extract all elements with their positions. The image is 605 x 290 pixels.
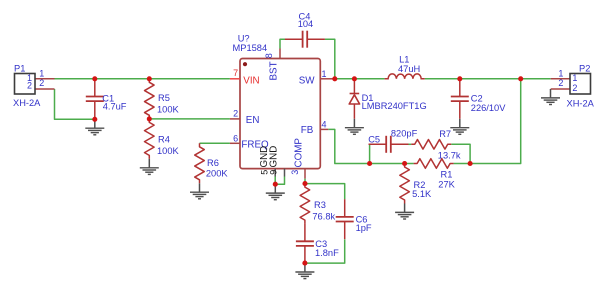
resistor R2 5.1K: [400, 164, 432, 204]
ground under R2: [395, 204, 414, 220]
resistor R6 200K: [195, 143, 229, 183]
svg-text:47uH: 47uH: [398, 64, 420, 74]
svg-text:C5: C5: [368, 134, 380, 144]
svg-text:820pF: 820pF: [391, 128, 418, 138]
svg-text:27K: 27K: [438, 180, 455, 190]
svg-text:2: 2: [558, 78, 563, 88]
connector P1 XH-2A: [13, 64, 55, 109]
svg-text:104: 104: [298, 19, 314, 29]
svg-text:R6: R6: [207, 158, 219, 168]
wire VIN rail P1 to U1 pin7: [55, 78, 230, 80]
connector P2 XH-2A: [551, 64, 595, 109]
junction VOUT rail / feedback tap: [518, 76, 523, 81]
resistor R7 13.7k: [411, 129, 461, 160]
wire BST to C4 left: [280, 39, 285, 48]
wire EN net R5/R4 to U1 pin2: [149, 118, 230, 120]
svg-text:4.7uF: 4.7uF: [103, 101, 127, 111]
svg-text:1: 1: [572, 73, 577, 83]
svg-text:1: 1: [322, 69, 327, 79]
wire C4 right to SW rail: [325, 39, 335, 79]
wire P1 pin2 to C1 bottom: [55, 89, 95, 119]
resistor R5 100K: [145, 79, 180, 119]
svg-text:2: 2: [233, 109, 238, 119]
capacitor C5 820pF: [368, 128, 417, 152]
junction R5 / R4 / EN: [147, 116, 152, 121]
junction C3 / C6 / ground: [302, 261, 307, 266]
svg-text:XH-2A: XH-2A: [567, 99, 595, 109]
junction FB node / R2: [402, 161, 407, 166]
ground under U1 GND pins: [266, 184, 285, 200]
svg-text:U?: U?: [238, 34, 250, 44]
ground under R4: [140, 159, 159, 175]
svg-text:P1: P1: [14, 64, 25, 74]
svg-text:200K: 200K: [206, 168, 229, 178]
junction SW rail / D1: [352, 76, 357, 81]
svg-text:MP1584: MP1584: [233, 43, 268, 53]
svg-text:R3: R3: [314, 200, 326, 210]
junction COMP / R3: [302, 181, 307, 186]
junction VIN rail / R5: [147, 76, 152, 81]
wire VOUT rail L1 to P2 pin1: [425, 78, 551, 80]
wire GND pins to ground node: [275, 177, 284, 185]
junction R1 / R7 / VOUT: [468, 161, 473, 166]
svg-text:100K: 100K: [157, 105, 180, 115]
capacitor C4 104: [285, 11, 325, 47]
svg-text:2: 2: [572, 83, 577, 93]
ground under C3: [295, 263, 314, 279]
svg-text:R7: R7: [439, 129, 451, 139]
ground at P2 pin2: [541, 89, 560, 105]
ground under R6: [190, 183, 209, 199]
wire FREQ net R6 to U1 pin6: [200, 142, 230, 144]
wire C5 branch up from FB node: [370, 144, 371, 163]
wire R7 right down to R1 right node: [451, 144, 470, 163]
svg-text:R4: R4: [158, 134, 170, 144]
resistor R4 100K: [145, 119, 180, 159]
svg-text:EN: EN: [246, 115, 260, 126]
svg-text:FB: FB: [301, 125, 314, 136]
wire R1 right to VOUT tap: [454, 79, 521, 164]
ground under D1: [345, 119, 364, 135]
op-amp U1 MP1584 regulator: [230, 34, 335, 179]
wire C6 bottom to C3 bottom: [305, 239, 345, 263]
junction FB node / C5 branch: [367, 161, 372, 166]
junction VOUT rail / C2: [457, 76, 462, 81]
resistor R3 76.8k: [300, 184, 335, 224]
svg-text:9: 9: [269, 170, 279, 175]
svg-text:1pF: 1pF: [356, 223, 372, 233]
capacitor C6 1pF: [336, 199, 372, 239]
wire SW rail U1 pin1 to L1: [335, 78, 385, 80]
junction SW rail / C4 branch: [332, 76, 337, 81]
svg-text:5.1K: 5.1K: [412, 189, 432, 199]
svg-text:2: 2: [27, 81, 32, 91]
svg-text:4: 4: [322, 119, 327, 129]
ground under C2: [450, 119, 469, 135]
wire COMP node to C6 top: [305, 179, 345, 200]
svg-text:7: 7: [233, 68, 238, 78]
svg-text:100K: 100K: [157, 146, 180, 156]
svg-text:226/10V: 226/10V: [471, 103, 506, 113]
svg-text:L1: L1: [399, 54, 409, 64]
svg-text:1.8nF: 1.8nF: [315, 248, 339, 258]
svg-text:76.8k: 76.8k: [312, 212, 335, 222]
svg-text:BST: BST: [269, 61, 280, 80]
ground under C1: [85, 119, 104, 135]
capacitor C2 226/10V: [451, 79, 506, 119]
junction C1 bottom / ground: [92, 117, 97, 122]
svg-text:6: 6: [233, 134, 238, 144]
diode D1 LMBR240FT1G: [349, 79, 427, 119]
capacitor C1 4.7uF: [86, 79, 127, 119]
svg-text:3: 3: [290, 170, 300, 175]
svg-text:P2: P2: [579, 64, 590, 74]
svg-text:GND: GND: [269, 146, 280, 168]
inductor L1 47uH: [385, 54, 425, 79]
svg-text:2: 2: [39, 78, 44, 88]
svg-text:R5: R5: [158, 93, 170, 103]
capacitor C3 1.8nF: [296, 224, 339, 264]
wire FB U1 pin4 down to divider: [328, 129, 413, 163]
resistor R1 27K: [414, 159, 456, 190]
wire C5 to R7: [409, 143, 412, 145]
svg-text:LMBR240FT1G: LMBR240FT1G: [362, 101, 427, 111]
svg-text:8: 8: [264, 53, 274, 58]
svg-text:COMP: COMP: [294, 138, 305, 168]
svg-text:XH-2A: XH-2A: [13, 98, 41, 108]
svg-text:R1: R1: [441, 169, 453, 179]
junction GND pins node: [273, 182, 278, 187]
svg-text:VIN: VIN: [243, 75, 259, 86]
svg-text:SW: SW: [299, 75, 316, 86]
junction VIN rail / C1: [92, 76, 97, 81]
